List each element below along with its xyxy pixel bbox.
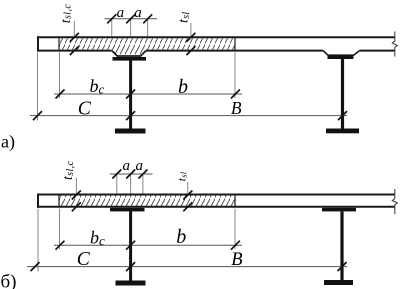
- svg-text:a: a: [117, 5, 125, 21]
- svg-text:a: a: [135, 158, 143, 174]
- svg-text:b: b: [176, 226, 186, 248]
- svg-text:б): б): [1, 272, 17, 289]
- svg-text:C: C: [78, 99, 92, 120]
- svg-text:tsl: tsl: [176, 171, 188, 181]
- svg-text:C: C: [77, 249, 91, 270]
- svg-text:a: a: [122, 158, 130, 174]
- svg-text:b: b: [178, 76, 188, 98]
- svg-text:B: B: [231, 98, 242, 118]
- svg-text:а): а): [1, 132, 15, 153]
- svg-text:a: a: [134, 5, 142, 21]
- svg-text:B: B: [231, 250, 242, 270]
